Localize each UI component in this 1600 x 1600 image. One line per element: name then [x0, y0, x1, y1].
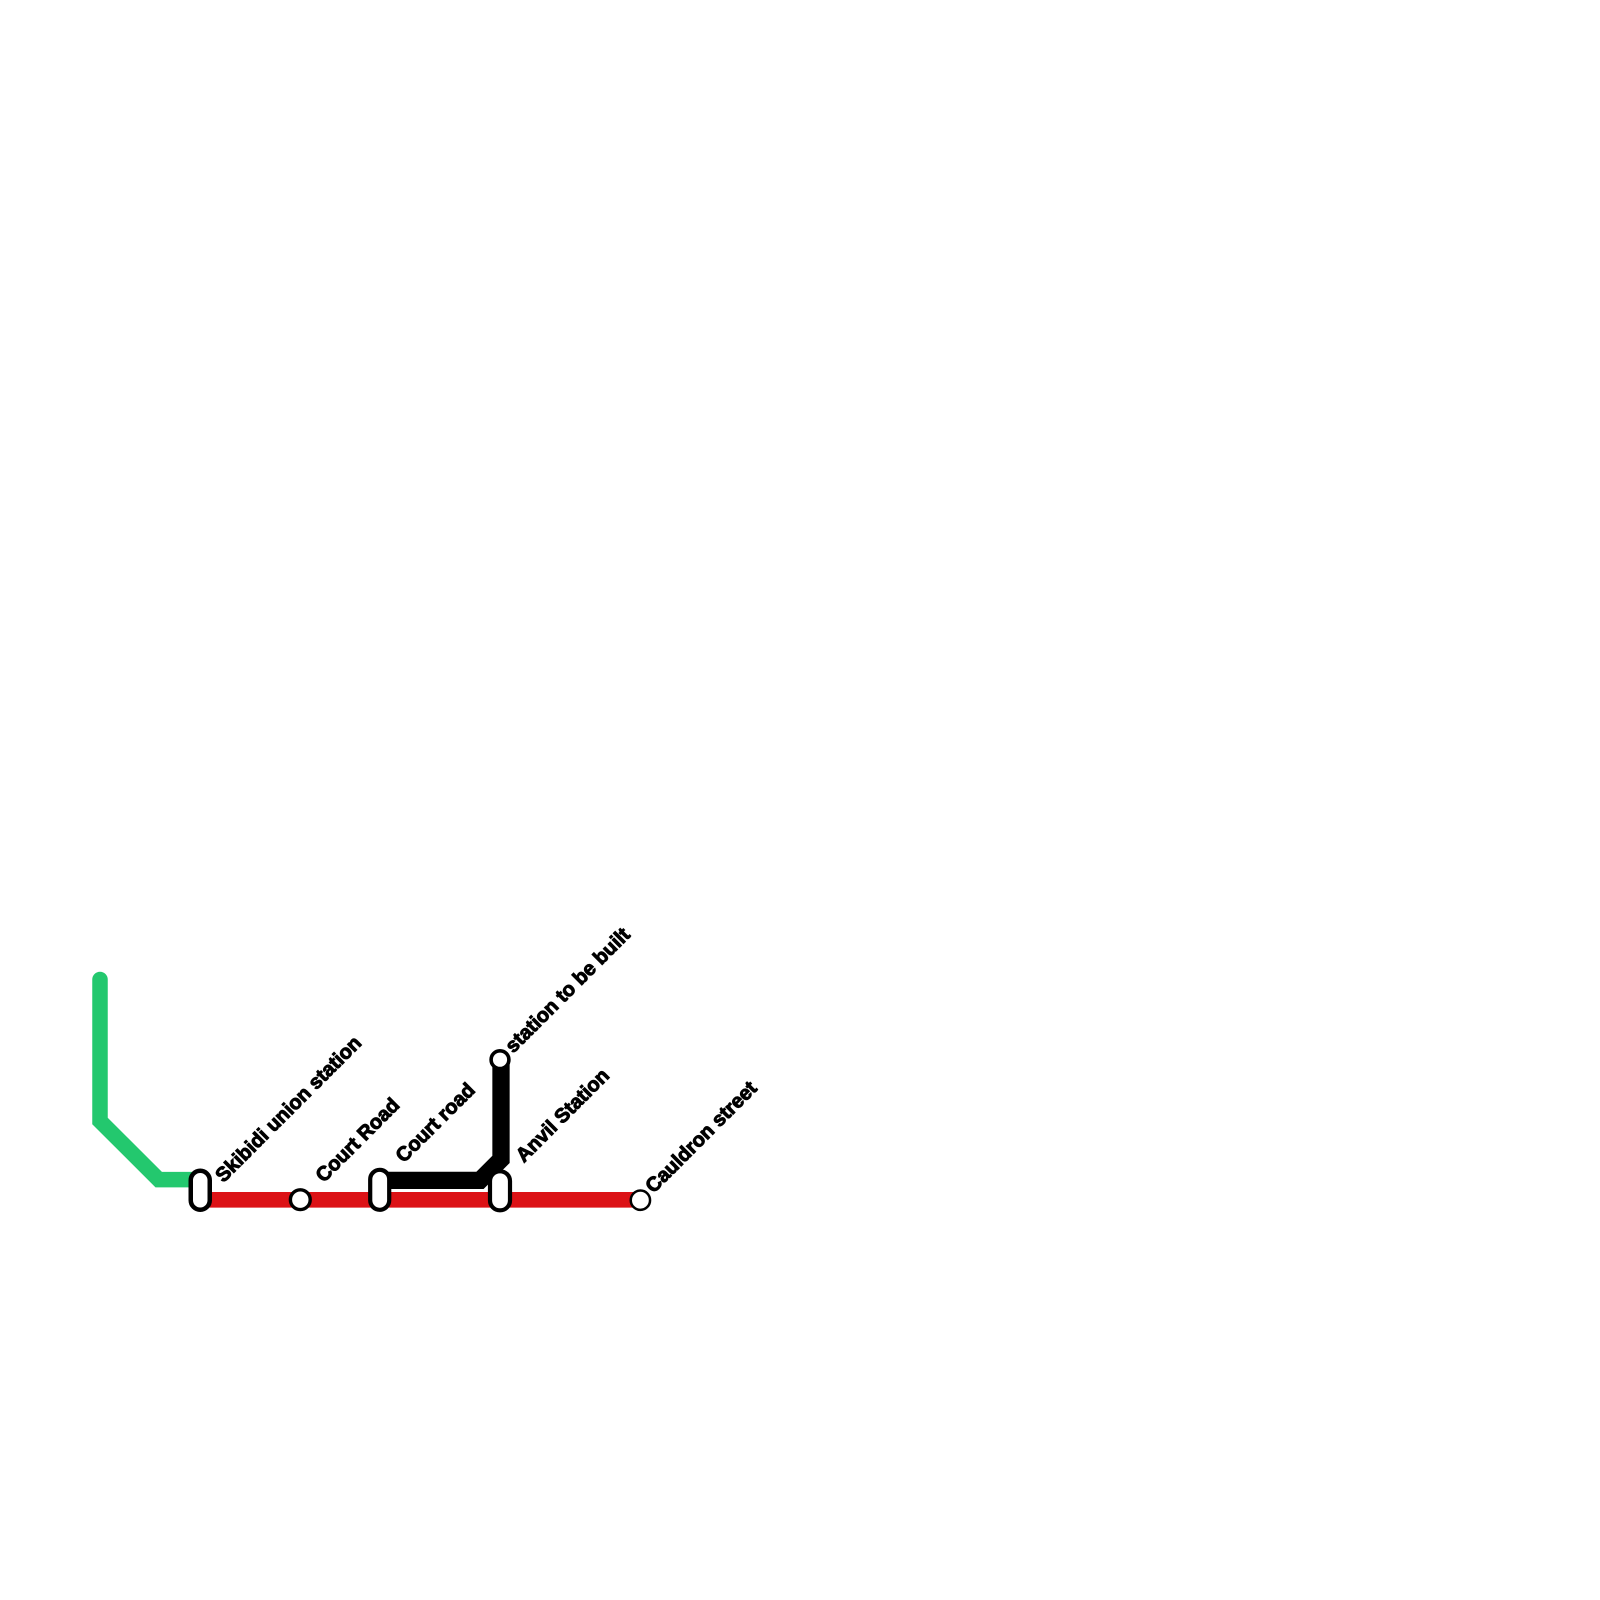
- station marker: Court Road (circle): [290, 1190, 310, 1210]
- black line (branch from Court road via Anvil Station up to station to be built): [380, 1060, 501, 1181]
- green line (feeder from north-west into Skibidi union station): [100, 980, 200, 1180]
- station marker: Anvil Station (capsule): [490, 1171, 510, 1210]
- station marker: Cauldron street (circle): [631, 1191, 650, 1210]
- station marker: Skibidi union station (capsule): [191, 1171, 210, 1210]
- station marker: station to be built (circle): [491, 1051, 509, 1069]
- station marker: Court road (capsule): [370, 1170, 389, 1210]
- red line (main east-west line): [200, 1192, 640, 1208]
